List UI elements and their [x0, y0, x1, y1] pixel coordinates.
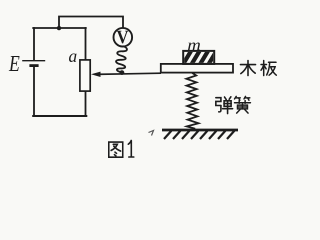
- voltmeter U1 circle: [114, 28, 133, 47]
- wire: voltmeter branch: [59, 17, 123, 29]
- junction node dot: [57, 26, 61, 30]
- wire: bottom wire: [33, 115, 86, 117]
- label m: [188, 43, 200, 50]
- wiper arrowhead: [91, 72, 101, 77]
- label tan-huang (spring): [216, 97, 233, 114]
- caption: tu 1 (Figure 1): [109, 142, 123, 157]
- coil resistor under voltmeter: [116, 46, 127, 72]
- wiper wire to board: [95, 73, 161, 74]
- stray scan mark: [149, 131, 154, 136]
- wire: left vertical top (battery to top wire): [33, 28, 35, 60]
- voltmeter V letter: [117, 31, 129, 44]
- spring (zigzag): [186, 73, 198, 129]
- mass block body: [182, 51, 217, 66]
- rheostat body: [80, 60, 90, 91]
- wire: top wire: [33, 27, 86, 29]
- label a: [69, 53, 77, 62]
- wire: left vertical bottom: [33, 66, 35, 116]
- wire: right vertical (rheostat top lead): [85, 28, 87, 60]
- label mu-ban (wooden board): [241, 61, 256, 76]
- label E: [9, 56, 20, 71]
- ground line: [162, 129, 238, 132]
- ground hatching: [164, 131, 235, 139]
- block hatch stripes: [182, 51, 217, 66]
- battery E short plate: [29, 64, 38, 67]
- board (wooden plank): [161, 64, 233, 73]
- battery E long plate: [22, 60, 45, 62]
- junction blob coil/wire: [120, 70, 125, 75]
- wire: rheostat bottom lead: [85, 91, 87, 116]
